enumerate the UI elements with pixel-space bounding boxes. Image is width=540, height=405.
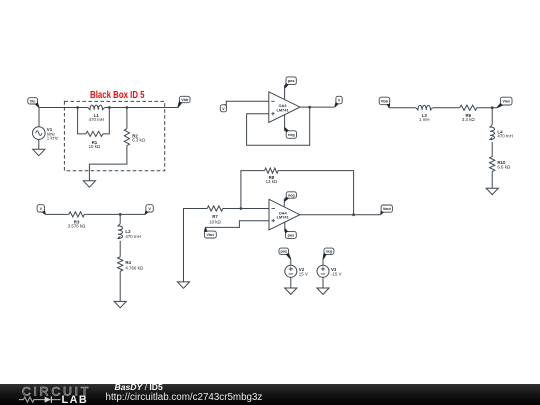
- black box dashed outline: [64, 101, 164, 170]
- OA3 output junction: [308, 106, 311, 109]
- resistor R7: [207, 206, 223, 211]
- wire junction to L4: [491, 108, 493, 125]
- wire Vin to black box: [39, 107, 78, 109]
- node Vbb flag left: [177, 96, 190, 107]
- wire L4 to R10: [491, 142, 493, 157]
- node Vout flag: [380, 205, 392, 215]
- node pos flag OA4: [284, 228, 296, 238]
- op-amp OA3 LM741: [269, 92, 300, 123]
- node Vin flag: [28, 98, 40, 108]
- ground R7 input: [177, 282, 189, 288]
- node V flag OA3 input: [220, 104, 226, 112]
- node neg flag V3: [323, 248, 334, 259]
- resistor R2: [89, 108, 129, 181]
- node neg flag OA3: [284, 127, 296, 138]
- node A junction: [76, 106, 79, 109]
- OA4 pos supply pin: [284, 222, 286, 232]
- V3 label: [331, 267, 342, 277]
- node Vinv flag top: [497, 97, 512, 108]
- OA3 output wire: [300, 106, 335, 108]
- svg-text:http://circuitlab.com/c2743cr5: http://circuitlab.com/c2743cr5mbg3z: [106, 392, 263, 403]
- junction output/feedback: [352, 213, 355, 216]
- node V flag OA3 output: [334, 96, 342, 107]
- V2 label: [299, 267, 308, 277]
- resistor R1 parallel branch: [78, 108, 110, 137]
- inductor L3: [416, 105, 433, 110]
- resistor R3: [69, 212, 84, 217]
- wire R9 to junction: [477, 107, 497, 109]
- resistor R9: [460, 105, 477, 110]
- R2 label: [132, 133, 146, 142]
- L2 label: [125, 229, 140, 239]
- inductor L2: [118, 214, 123, 238]
- OA3 feedback wire: [247, 107, 310, 145]
- wire Vbb to L3: [389, 107, 416, 109]
- ground bottom left: [114, 301, 126, 307]
- ground below V3: [317, 288, 329, 294]
- footer title BasDY / ID5: [115, 382, 163, 392]
- R4 label: [125, 260, 143, 270]
- resistor R10: [490, 157, 495, 172]
- R1 label: [89, 140, 101, 149]
- wire ground to R7: [184, 209, 208, 282]
- wire L3 to R9: [433, 107, 460, 109]
- logo LAB text: [62, 394, 89, 405]
- OA4 non-inverting input wire from Vinv: [206, 221, 270, 228]
- L3 label: [419, 113, 430, 122]
- footer bar: [0, 384, 540, 405]
- svg-text:BasDY / ID5: BasDY / ID5: [115, 382, 163, 392]
- junction Vinv top: [491, 106, 494, 109]
- R9 label: [462, 113, 476, 122]
- OA3 neg supply pin: [284, 115, 286, 131]
- wire R7 to OA4: [223, 208, 269, 210]
- R10 label: [497, 160, 511, 169]
- wire V to OA3 inverting input: [226, 101, 268, 105]
- L1 label: [89, 113, 104, 122]
- black box title: [90, 90, 145, 101]
- node pos flag OA3: [284, 77, 296, 89]
- node neg flag OA4: [284, 192, 297, 202]
- wire R3 to junction to V flag: [84, 213, 145, 215]
- inductor L4: [490, 125, 495, 140]
- node V flag bottom left: [37, 205, 46, 215]
- resistor R8 feedback: [241, 168, 354, 215]
- node Vinv flag bottom: [204, 227, 216, 238]
- wire R10 to ground: [491, 171, 493, 188]
- ground below V1: [33, 149, 45, 155]
- node V flag bottom right: [145, 205, 154, 215]
- node B junction: [108, 106, 111, 109]
- ground top right: [486, 188, 498, 194]
- voltage source V1: [33, 108, 46, 150]
- ground below V2: [285, 288, 297, 294]
- node C junction: [126, 106, 129, 109]
- OA3 pos supply pin: [284, 85, 286, 100]
- wire R4 to ground: [119, 271, 121, 301]
- voltage source V3: [317, 259, 329, 288]
- R3 label: [68, 219, 86, 228]
- OA4 output wire: [300, 214, 381, 216]
- V1 label: [47, 127, 58, 141]
- junction L2 top: [119, 213, 122, 216]
- footer url: [106, 392, 263, 403]
- R7 label: [209, 214, 221, 224]
- inductor L1: [78, 105, 110, 110]
- OA4 neg supply pin: [283, 198, 285, 207]
- ground inside black box branch: [83, 181, 95, 187]
- CircuitLab logo CIRCUIT text: [22, 384, 91, 398]
- junction R7/R8: [240, 207, 243, 210]
- logo resistor and diode glyph: [19, 396, 61, 402]
- L4 label: [497, 129, 512, 138]
- svg-text:LAB: LAB: [62, 394, 89, 405]
- voltage source V2: [285, 259, 297, 288]
- node pos flag V2: [279, 248, 291, 260]
- op-amp OA4 LM741: [269, 199, 300, 230]
- wire B to C: [109, 107, 127, 109]
- wire V to R3: [46, 213, 69, 215]
- resistor R4: [118, 257, 123, 272]
- wire C to Vbb: [127, 107, 178, 109]
- R8 label: [266, 175, 278, 184]
- node Vbb flag right: [379, 97, 390, 108]
- wire L2 to R4: [119, 241, 121, 257]
